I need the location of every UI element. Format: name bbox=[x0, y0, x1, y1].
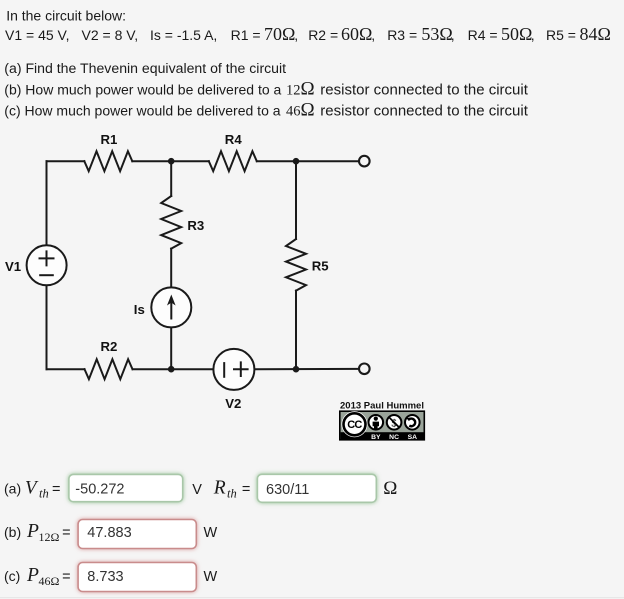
node D (bottom right) bbox=[293, 366, 300, 373]
svg-text:=: = bbox=[52, 482, 60, 498]
V2 plus sign bbox=[234, 362, 248, 376]
answer input box Rth (correct, green) bbox=[257, 474, 376, 502]
open terminal bottom right bbox=[359, 364, 370, 375]
V2 minus bar bbox=[223, 363, 225, 377]
answer input box P46 (red) bbox=[78, 563, 196, 592]
svg-text:8.733: 8.733 bbox=[87, 569, 123, 585]
svg-text:,: , bbox=[531, 27, 535, 43]
svg-text:=: = bbox=[62, 569, 70, 585]
svg-text:R5: R5 bbox=[312, 259, 329, 274]
svg-text:12Ω: 12Ω bbox=[286, 79, 315, 100]
badge background plate bbox=[340, 411, 425, 440]
bottom divider line bbox=[0, 597, 624, 598]
svg-text:(c) How much power would be de: (c) How much power would be delivered to… bbox=[4, 103, 280, 119]
svg-text:,: , bbox=[451, 27, 455, 43]
svg-text:resistor connected to the circ: resistor connected to the circuit bbox=[320, 82, 528, 99]
wire R1 to node A bbox=[132, 160, 209, 162]
node C (bottom middle) bbox=[168, 366, 175, 373]
svg-text:V2: V2 bbox=[225, 396, 241, 411]
svg-text:th: th bbox=[39, 487, 49, 501]
wire R4 to node B and to terminal bbox=[257, 160, 359, 162]
svg-text:=: = bbox=[242, 482, 250, 498]
svg-text:-50.272: -50.272 bbox=[75, 482, 124, 498]
svg-text:SA: SA bbox=[408, 434, 418, 441]
svg-text:V1: V1 bbox=[5, 259, 21, 274]
resistor R2 bbox=[85, 359, 133, 379]
svg-text:630/11: 630/11 bbox=[266, 482, 309, 498]
wire R3 to Is bbox=[170, 249, 172, 288]
node A (top middle) bbox=[168, 158, 175, 165]
svg-text:(a): (a) bbox=[4, 481, 21, 497]
svg-text:47.883: 47.883 bbox=[87, 525, 131, 541]
BY (attribution) icon bbox=[369, 415, 384, 430]
svg-text:R2 =: R2 = bbox=[308, 27, 338, 43]
svg-text:(a) Find the Thevenin equivale: (a) Find the Thevenin equivalent of the … bbox=[4, 60, 286, 76]
svg-text:84Ω: 84Ω bbox=[580, 24, 611, 44]
svg-text:R5 =: R5 = bbox=[546, 27, 576, 43]
svg-text:70Ω: 70Ω bbox=[264, 24, 295, 44]
svg-text:R1: R1 bbox=[101, 132, 118, 147]
svg-text:,: , bbox=[371, 27, 375, 43]
svg-text:W: W bbox=[204, 525, 218, 541]
wire R5 to bottom node D bbox=[295, 291, 297, 370]
svg-text:R4: R4 bbox=[225, 132, 243, 147]
svg-text:CC: CC bbox=[347, 419, 362, 431]
svg-text:V: V bbox=[192, 482, 202, 498]
V1 plus sign bbox=[40, 251, 54, 265]
svg-text:Ω: Ω bbox=[383, 478, 397, 499]
svg-text:P: P bbox=[26, 565, 39, 586]
svg-text:R2: R2 bbox=[101, 339, 118, 354]
svg-text:50Ω: 50Ω bbox=[501, 24, 532, 44]
svg-text:53Ω: 53Ω bbox=[421, 24, 452, 44]
svg-text:60Ω: 60Ω bbox=[341, 24, 372, 44]
svg-text:12Ω: 12Ω bbox=[39, 530, 60, 544]
CC logo circle bbox=[342, 411, 368, 437]
open terminal top right bbox=[359, 156, 370, 167]
svg-text:P: P bbox=[26, 521, 39, 542]
svg-text:46Ω: 46Ω bbox=[286, 100, 315, 121]
svg-text:R3 =: R3 = bbox=[387, 27, 417, 43]
svg-text:BY: BY bbox=[371, 434, 381, 441]
wire R2 to node C and V2 bbox=[133, 368, 214, 370]
svg-text:W: W bbox=[204, 569, 218, 585]
NC (non-commercial) icon bbox=[387, 415, 402, 430]
svg-text:NC: NC bbox=[389, 434, 399, 441]
node B (top right) bbox=[293, 158, 300, 165]
wire node A down to R3 bbox=[170, 161, 172, 196]
answer input box Vth (correct, green) bbox=[69, 474, 183, 501]
badge black strip bbox=[341, 432, 424, 439]
resistor R4 bbox=[209, 151, 257, 171]
svg-text:V: V bbox=[25, 478, 39, 499]
wire bottom-left to R2 bbox=[47, 368, 85, 370]
voltage source V2 bbox=[213, 349, 254, 390]
resistor R5 bbox=[286, 239, 306, 291]
svg-text:(b) How much power would be de: (b) How much power would be delivered to… bbox=[4, 82, 281, 98]
svg-text:=: = bbox=[62, 525, 70, 541]
V1 minus sign bbox=[40, 274, 53, 276]
wire V2 to node D and terminal bbox=[254, 368, 358, 370]
svg-text:V2 = 8 V,: V2 = 8 V, bbox=[82, 27, 139, 43]
svg-text:Is = -1.5 A,: Is = -1.5 A, bbox=[150, 27, 217, 43]
svg-text:V1 = 45 V,: V1 = 45 V, bbox=[5, 27, 69, 43]
wire V1 to bottom-left corner bbox=[46, 285, 48, 369]
wire node B down to R5 bbox=[295, 161, 297, 239]
wire left rail down to V1 bbox=[46, 161, 48, 245]
svg-text:(b): (b) bbox=[4, 524, 21, 540]
svg-text:R1 =: R1 = bbox=[231, 27, 261, 43]
svg-text:In the circuit below:: In the circuit below: bbox=[6, 7, 126, 23]
wire top-left from corner to R1 bbox=[47, 160, 85, 162]
resistor R1 bbox=[84, 151, 132, 171]
SA (share-alike) icon bbox=[405, 415, 420, 430]
svg-text:resistor connected to the circ: resistor connected to the circuit bbox=[320, 103, 528, 120]
answer input box P12 (red) bbox=[78, 520, 196, 549]
svg-text:2013 Paul Hummel: 2013 Paul Hummel bbox=[340, 401, 424, 412]
voltage source V1 bbox=[27, 245, 67, 285]
svg-text:,: , bbox=[294, 27, 298, 43]
svg-text:Is: Is bbox=[134, 302, 145, 317]
svg-text:(c): (c) bbox=[4, 568, 20, 584]
current source Is bbox=[151, 287, 191, 327]
svg-text:R4 =: R4 = bbox=[468, 27, 498, 43]
resistor R3 bbox=[161, 196, 181, 249]
wire Is to bottom node C bbox=[170, 327, 172, 369]
Is arrow head bbox=[167, 295, 176, 306]
Is arrow shaft bbox=[170, 303, 172, 319]
svg-text:46Ω: 46Ω bbox=[39, 574, 60, 588]
svg-text:R: R bbox=[213, 478, 226, 499]
svg-text:th: th bbox=[227, 487, 237, 501]
svg-text:R3: R3 bbox=[187, 218, 204, 233]
